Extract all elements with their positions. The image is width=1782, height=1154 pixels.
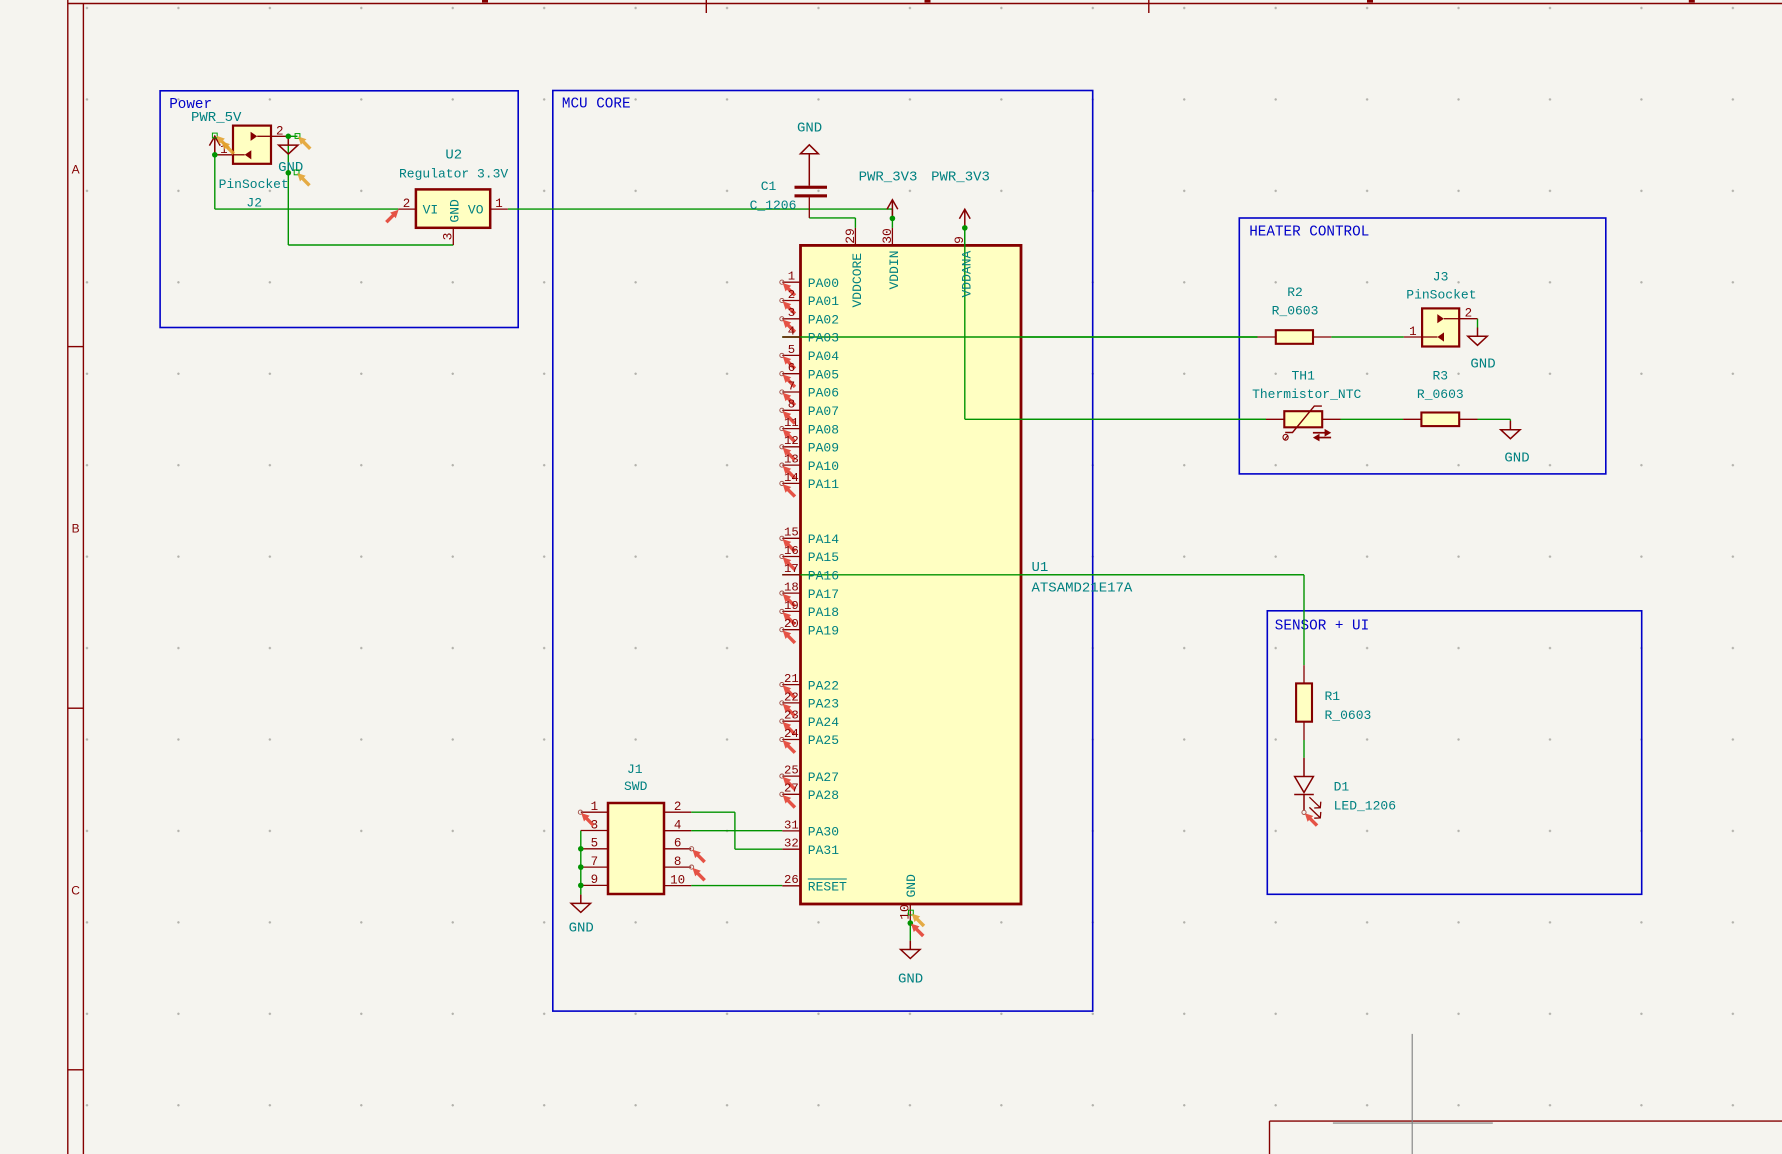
U1 pin 17 PA16 (782, 574, 800, 576)
frame top column ticks (705, 0, 707, 13)
J1 pin 7 (581, 866, 608, 868)
svg-text:GND: GND (898, 971, 923, 987)
svg-text:HEATER CONTROL: HEATER CONTROL (1249, 225, 1369, 241)
svg-text:7: 7 (591, 855, 599, 869)
ground symbol after R3 (1501, 421, 1520, 439)
svg-text:2: 2 (1465, 307, 1473, 321)
svg-text:PA27: PA27 (808, 770, 839, 785)
svg-text:VI: VI (423, 202, 439, 217)
note box MCU CORE section (553, 91, 1093, 1012)
junction J2 pin1 (212, 152, 218, 158)
svg-text:22: 22 (784, 690, 799, 704)
svg-text:24: 24 (784, 727, 799, 741)
U1 pin 20 PA19 (782, 629, 800, 631)
U1 pin 21 PA22 (782, 684, 800, 686)
svg-text:U1: U1 (1032, 560, 1049, 576)
svg-text:MCU CORE: MCU CORE (562, 96, 631, 112)
svg-text:GND: GND (904, 874, 919, 898)
svg-text:J3: J3 (1433, 270, 1449, 285)
junction J2 pin2 (286, 134, 292, 140)
svg-text:15: 15 (784, 526, 799, 540)
sheet frame left inner border line (82, 4, 84, 1154)
frame row divider C/D (68, 1069, 84, 1071)
U1 pin 29 stub (854, 228, 856, 245)
resistor R2 body (1276, 330, 1313, 344)
U1 pin 22 PA23 (782, 702, 800, 704)
wire drop to pin 29 (854, 218, 856, 228)
svg-text:J2: J2 (246, 196, 262, 211)
capacitor C1 plates (795, 186, 828, 189)
svg-text:10: 10 (670, 873, 685, 887)
svg-text:PA31: PA31 (808, 843, 839, 858)
svg-text:GND: GND (1470, 357, 1495, 373)
svg-text:8: 8 (788, 398, 795, 412)
J2 pin 2 stub (271, 135, 288, 137)
wire VDDANA horizontal over U1 body (965, 418, 1266, 420)
svg-text:PA18: PA18 (808, 605, 839, 620)
wire J1 pin3 to GND rail (580, 831, 582, 895)
svg-text:R3: R3 (1432, 369, 1448, 384)
svg-text:PA05: PA05 (808, 367, 839, 382)
svg-text:23: 23 (784, 709, 799, 723)
junction GND net below J2 (286, 170, 292, 176)
wire J1 pin2 toward PA31 (691, 811, 735, 813)
ground symbol below J1 (571, 895, 590, 913)
U1 pin 24 PA25 (782, 739, 800, 741)
J1 pin 2 (664, 811, 691, 813)
wire R3 to GND corner (1478, 418, 1511, 420)
svg-text:26: 26 (784, 873, 799, 887)
svg-text:12: 12 (784, 434, 799, 448)
svg-text:PA24: PA24 (808, 715, 839, 730)
svg-text:Regulator 3.3V: Regulator 3.3V (399, 166, 508, 181)
svg-text:PA01: PA01 (808, 294, 839, 309)
svg-text:Thermistor_NTC: Thermistor_NTC (1252, 387, 1361, 402)
frame row divider B/C (68, 707, 84, 709)
wire J1 pin2 drop (734, 812, 736, 849)
svg-text:8: 8 (674, 855, 682, 869)
U1 pin 4 PA03 (782, 336, 800, 338)
svg-text:VO: VO (468, 202, 484, 217)
wire PWR_3V3 drop to U1 VDDIN pin 30 (891, 209, 893, 228)
J1 pin 6 (664, 848, 691, 850)
svg-text:TH1: TH1 (1291, 369, 1315, 384)
svg-text:PA23: PA23 (808, 697, 839, 712)
J1 pin 3 (581, 830, 608, 832)
wire PA16 to sensor (782, 574, 1304, 576)
ERC error arrow at U1 pin 10 (911, 924, 925, 938)
ERC warning arrow at J2 pin2 (298, 136, 312, 150)
svg-text:21: 21 (784, 672, 799, 686)
wire stub J2 pin2 to flag point (288, 135, 297, 137)
J2 pin 1 stub (215, 154, 233, 156)
unconnected end marker at U1 pin 10 (909, 910, 914, 915)
C1 lower lead (808, 197, 810, 218)
J2 pin 2 decoration triangle (257, 135, 271, 137)
svg-text:GND: GND (1504, 451, 1529, 467)
wire PWR_3V3 from U2 VO to MCU (508, 208, 893, 210)
svg-text:PA14: PA14 (808, 532, 839, 547)
TH1 left stub (1266, 418, 1284, 420)
svg-text:2: 2 (674, 800, 682, 814)
svg-text:31: 31 (784, 818, 799, 832)
wire J3 pin2 to GND (1477, 319, 1479, 328)
svg-text:16: 16 (784, 544, 799, 558)
note box SENSOR + UI section (1267, 611, 1641, 895)
svg-text:R_0603: R_0603 (1325, 708, 1372, 723)
svg-text:PWR_5V: PWR_5V (191, 110, 242, 126)
U1 pin 23 PA24 (782, 720, 800, 722)
connector J1 body (608, 803, 664, 894)
ERC warning arrow at GND power pin (297, 173, 311, 187)
frame row divider A/B (68, 346, 84, 348)
frame top column number stubs (cropped digits) (482, 0, 488, 3)
svg-text:R2: R2 (1287, 285, 1303, 300)
svg-text:A: A (72, 163, 80, 177)
R2 left stub (1258, 336, 1276, 338)
svg-text:29: 29 (843, 228, 858, 244)
U1 pin 14 PA11 (782, 482, 800, 484)
svg-text:2: 2 (276, 124, 284, 138)
wire GND vertical from J2 pin2 down (287, 136, 289, 245)
svg-text:GND: GND (569, 920, 594, 936)
svg-text:R_0603: R_0603 (1272, 303, 1319, 318)
svg-text:B: B (72, 522, 80, 536)
svg-text:R1: R1 (1325, 689, 1341, 704)
svg-text:1: 1 (495, 197, 503, 211)
svg-text:PA30: PA30 (808, 825, 839, 840)
J1 pin 1 (581, 811, 608, 813)
svg-text:4: 4 (674, 819, 682, 833)
wire U1 GND pin to ground (909, 923, 911, 941)
svg-text:RESET: RESET (808, 880, 847, 895)
note box HEATER CONTROL section (1239, 218, 1606, 474)
svg-text:7: 7 (788, 379, 795, 393)
U1 pin 12 PA09 (782, 446, 800, 448)
U1 pin 26 RESET (782, 885, 800, 887)
svg-text:6: 6 (788, 361, 795, 375)
TH1 theta mark (1283, 434, 1288, 440)
svg-text:5: 5 (591, 837, 599, 851)
svg-text:GND: GND (447, 199, 462, 223)
svg-text:PA06: PA06 (808, 386, 839, 401)
ground symbol below U1 pin 10 (901, 941, 920, 959)
svg-text:32: 32 (784, 837, 799, 851)
wire to U1 PA31 (735, 848, 782, 850)
U1 pin 16 PA15 (782, 556, 800, 558)
U1 pin 7 PA06 (782, 391, 800, 393)
wire TH1 to R3 (1341, 418, 1404, 420)
wire PWR_5V vertical from flag to J2 pin1 down to U2 row (214, 136, 216, 210)
svg-text:PA19: PA19 (808, 623, 839, 638)
J1 pin 10 (664, 885, 691, 887)
wire C1 to U1 VDDCORE pin 29 (809, 217, 855, 219)
connector J3 body (1422, 308, 1459, 346)
svg-text:PA02: PA02 (808, 313, 839, 328)
junction PWR_3V3 at VDDANA (962, 225, 968, 231)
LED D1 symbol (1294, 758, 1314, 811)
svg-text:PA07: PA07 (808, 404, 839, 419)
svg-text:PinSocket: PinSocket (219, 177, 289, 192)
svg-text:3: 3 (441, 233, 456, 241)
power symbol PWR_3V3 no.2 (959, 209, 970, 228)
unconnected end marker at J2 pin2 flag (295, 134, 300, 139)
wire R2 to J3 pin1 (1331, 336, 1404, 338)
power flag PWR_5V symbol (209, 136, 220, 155)
svg-text:14: 14 (784, 471, 799, 485)
U1 pin 13 PA10 (782, 464, 800, 466)
D1 emission arrows (1309, 797, 1320, 818)
wire R3 GND drop (1509, 419, 1511, 421)
svg-text:9: 9 (591, 873, 599, 887)
svg-text:PA09: PA09 (808, 441, 839, 456)
J1 pin 5 (581, 848, 608, 850)
resistor R3 body (1421, 413, 1459, 427)
wire PWR_5V J2 pin1 to U2 VI (215, 208, 398, 210)
resistor R1 body (vertical) (1296, 683, 1312, 721)
U1 pin 27 PA28 (782, 793, 800, 795)
ground symbol above C1 (rotated 180) (800, 145, 818, 186)
wire R1 to D1 (1303, 740, 1305, 758)
sheet frame top border line (68, 3, 1782, 5)
svg-text:6: 6 (674, 837, 682, 851)
J1 pin 4 (664, 830, 691, 832)
svg-text:PA00: PA00 (808, 276, 839, 291)
svg-text:PA04: PA04 (808, 349, 839, 364)
junction PWR_3V3 at VDDIN (890, 216, 896, 222)
svg-text:PA10: PA10 (808, 459, 839, 474)
svg-text:13: 13 (784, 453, 799, 467)
R3 right stub (1459, 418, 1477, 420)
svg-text:PA11: PA11 (808, 477, 839, 492)
wire J1 pin10 to U1 RESET (691, 885, 782, 887)
wire PA16 drop to R1 (1303, 575, 1305, 665)
R1 bottom stub (1303, 722, 1305, 740)
svg-text:PWR_3V3: PWR_3V3 (931, 169, 990, 185)
U1 pin 1 PA00 (782, 281, 800, 283)
svg-text:ATSAMD21E17A: ATSAMD21E17A (1032, 581, 1133, 597)
svg-text:2: 2 (403, 197, 411, 211)
sheet frame left outer border line (67, 0, 69, 1154)
connector J2 PinSocket body (233, 126, 271, 164)
svg-text:C: C (71, 884, 80, 898)
junction U1 pin 10 (908, 920, 914, 926)
U1 pin 6 PA05 (782, 373, 800, 375)
U1 pin 5 PA04 (782, 354, 800, 356)
R1 top stub (1303, 665, 1305, 683)
cursor crosshair (1411, 1034, 1413, 1154)
U2 pin 2 stub VI (398, 208, 416, 210)
power symbol PWR_3V3 no.1 (887, 200, 898, 219)
ERC error arrow at U2 VI (385, 210, 399, 224)
svg-text:11: 11 (784, 416, 799, 430)
U1 pin 11 PA08 (782, 428, 800, 430)
svg-text:PA25: PA25 (808, 733, 839, 748)
U1 pin 2 PA01 (782, 300, 800, 302)
svg-text:VDDIN: VDDIN (887, 250, 902, 289)
U1 pin 10 stub GND (909, 905, 911, 923)
ERC error arrow at D1 cathode (1305, 813, 1319, 827)
R3 left stub (1403, 418, 1421, 420)
U2 pin 3 stub GND (452, 228, 454, 245)
U1 pin 32 PA31 (782, 848, 800, 850)
svg-text:PinSocket: PinSocket (1406, 288, 1476, 303)
svg-text:C1: C1 (761, 179, 777, 194)
svg-text:PA17: PA17 (808, 587, 839, 602)
svg-text:PA22: PA22 (808, 678, 839, 693)
svg-text:D1: D1 (1334, 780, 1350, 795)
J3 pin 1 stub (1404, 336, 1422, 338)
svg-text:2: 2 (788, 288, 795, 302)
U1 pin 3 PA02 (782, 318, 800, 320)
unconnected end marker GND power pin (294, 170, 299, 175)
regulator U2 body (416, 189, 490, 227)
svg-text:SENSOR + UI: SENSOR + UI (1275, 619, 1369, 635)
svg-text:PA08: PA08 (808, 422, 839, 437)
svg-text:1: 1 (1409, 325, 1417, 339)
svg-text:PA15: PA15 (808, 550, 839, 565)
U1 pin 31 PA30 (782, 830, 800, 832)
J3 pin 1 decoration triangle (1422, 336, 1437, 338)
TH1 right stub (1322, 418, 1340, 420)
J1 pin 9 (581, 884, 608, 886)
svg-text:4: 4 (788, 324, 795, 338)
svg-text:1: 1 (591, 800, 599, 814)
svg-text:PA03: PA03 (808, 331, 839, 346)
svg-text:30: 30 (880, 228, 895, 244)
wire VDDANA to TH1 (965, 418, 1266, 420)
svg-text:GND: GND (797, 121, 822, 137)
svg-text:9: 9 (952, 236, 967, 244)
unconnected end marker at PWR_5V flag (212, 133, 217, 138)
svg-text:PA28: PA28 (808, 788, 839, 803)
ground symbol at J3 pin2 (1468, 328, 1487, 346)
note box Power section (160, 91, 518, 328)
svg-text:R_0603: R_0603 (1417, 387, 1464, 402)
J1 pin 8 (664, 866, 691, 868)
svg-text:5: 5 (788, 343, 795, 357)
svg-text:VDDCORE: VDDCORE (850, 253, 865, 308)
U1 pin 19 PA18 (782, 610, 800, 612)
svg-text:19: 19 (784, 599, 799, 613)
svg-text:3: 3 (591, 818, 599, 832)
U2 pin 1 stub VO (490, 208, 508, 210)
TH1 diagonal mark (1285, 406, 1322, 432)
wire GND to U2 pin3 (288, 244, 453, 246)
svg-text:C_1206: C_1206 (750, 198, 797, 213)
svg-text:17: 17 (784, 562, 799, 576)
svg-text:J1: J1 (627, 762, 643, 777)
svg-text:27: 27 (784, 782, 799, 796)
svg-text:PWR_3V3: PWR_3V3 (859, 169, 918, 185)
svg-text:18: 18 (784, 581, 799, 595)
svg-text:20: 20 (784, 617, 799, 631)
J2 pin 1 decoration triangle (233, 154, 245, 156)
R2 right stub (1313, 336, 1331, 338)
U1 pin 18 PA17 (782, 592, 800, 594)
wire PA03 over U1 body (782, 336, 1257, 338)
thermistor TH1 body (1284, 411, 1322, 427)
ERC warning arrow at U1 pin 10 (912, 914, 926, 928)
J3 pin 2 stub (1459, 318, 1477, 320)
svg-text:25: 25 (784, 764, 799, 778)
svg-text:PA16: PA16 (808, 569, 839, 584)
svg-text:10: 10 (898, 904, 913, 920)
svg-text:LED_1206: LED_1206 (1334, 799, 1396, 814)
U1 pin 25 PA27 (782, 775, 800, 777)
svg-text:1: 1 (788, 270, 795, 284)
wire VDDANA vertical through U1 body (964, 228, 966, 419)
svg-text:SWD: SWD (624, 779, 648, 794)
svg-text:3: 3 (788, 306, 795, 320)
wire VDDANA vertical over U1 body (964, 228, 966, 419)
ground symbol GND at J2 pin2 (279, 136, 298, 154)
title block outline (1270, 1120, 1782, 1122)
MCU U1 body (801, 245, 1022, 904)
svg-text:U2: U2 (445, 148, 462, 164)
svg-text:VDDANA: VDDANA (959, 250, 974, 297)
wire PA16 over U1 body (782, 574, 1304, 576)
wire PA03 to heater R2 (782, 336, 1257, 338)
ERC warning arrow at PWR_5V flag (216, 136, 230, 150)
U1 pin 8 PA07 (782, 409, 800, 411)
U1 pin 15 PA14 (782, 537, 800, 539)
ERC double arrows at TH1 (1313, 429, 1331, 442)
U1 pin 30 stub (891, 228, 893, 245)
J3 pin 2 decoration triangle (1444, 318, 1459, 320)
ERC warning arrow 2 at PWR_5V flag (222, 141, 236, 155)
wire J1 pin4 to U1 PA30 (691, 830, 782, 832)
